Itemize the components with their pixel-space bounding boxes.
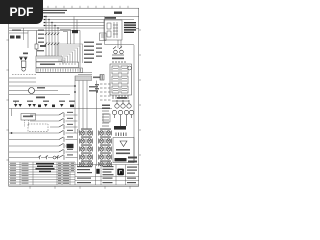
connector CN3 strip <box>36 68 83 73</box>
pin row 1111 <box>116 133 126 137</box>
pump label <box>36 97 45 99</box>
ticks right <box>139 30 141 155</box>
wire row 121 <box>30 120 78 122</box>
wire row 157.5 <box>9 157 78 159</box>
note text block dark <box>124 22 136 33</box>
sheet title note text <box>42 10 67 14</box>
fuse F1 body <box>35 31 38 57</box>
relay K1 <box>112 66 119 74</box>
wire bus L2 <box>44 19 134 21</box>
IC pin ladder upper <box>100 84 111 100</box>
wire run y82 <box>9 81 36 83</box>
solenoid valve row 4 <box>80 155 112 160</box>
frame zone ticks <box>6 6 141 189</box>
ticks left <box>6 40 8 160</box>
CN2 pins <box>60 63 75 65</box>
ladder wire rows <box>9 115 78 158</box>
choke L1 <box>114 22 117 38</box>
solenoid valve row 1 <box>80 131 112 136</box>
wire drop c2 <box>48 20 50 57</box>
bus start terminals <box>44 16 46 26</box>
junction dots column <box>74 85 76 93</box>
heater control box <box>110 64 132 95</box>
relay K6 <box>121 86 128 93</box>
wire row 133 <box>9 132 78 134</box>
relay K2 <box>121 66 128 74</box>
PDF badge <box>0 0 43 24</box>
wire bus stub <box>9 32 28 34</box>
wire drop c4 <box>54 26 56 57</box>
display box <box>113 138 134 163</box>
wire row 146 <box>9 145 66 147</box>
buzzer coil cloud <box>112 100 133 126</box>
lock body <box>19 57 28 71</box>
approval stamp <box>96 169 99 174</box>
dark strip bottom <box>115 158 127 161</box>
thermostat pair 2 <box>28 104 36 107</box>
relay labels column <box>37 30 44 52</box>
sensor IC body <box>103 114 110 122</box>
part table text <box>58 163 74 184</box>
connector CN4 band <box>76 77 90 81</box>
wire bus L1 <box>44 16 139 18</box>
interlock switch pair <box>112 47 124 56</box>
net name text <box>95 84 99 89</box>
wire bus 5 <box>9 27 105 29</box>
wire row 139.5 <box>9 139 78 141</box>
revision table text <box>10 163 29 184</box>
title block left table <box>9 162 75 185</box>
thermostat pair 4 <box>52 104 63 107</box>
tick to border <box>136 28 139 30</box>
capacitor CX2 <box>107 31 111 37</box>
right cell text <box>77 167 137 184</box>
right enclosure line <box>133 45 135 163</box>
wire drop left 1 <box>23 28 25 40</box>
solenoid valve row 2 <box>80 139 112 144</box>
dashed option box <box>28 124 48 132</box>
ticks bottom <box>30 186 130 189</box>
aqua sensor box <box>21 114 36 121</box>
pilot lamp <box>128 66 132 70</box>
net label column <box>84 42 102 64</box>
label PW top right <box>114 12 122 14</box>
power bus wires <box>9 17 139 34</box>
display text <box>116 149 130 154</box>
label power cord <box>12 30 21 32</box>
lock label <box>23 53 28 55</box>
label rows <box>102 105 110 110</box>
capacitor CX1 <box>107 23 111 29</box>
side arrow labels <box>128 157 137 163</box>
capacitor CY1 box <box>100 33 107 41</box>
left long wires <box>9 78 75 86</box>
lock brush symbol <box>20 58 28 61</box>
logo letter <box>119 170 122 173</box>
relay K3 <box>112 76 119 84</box>
company logo <box>117 169 124 176</box>
wire row 127 <box>50 126 78 128</box>
pressure switch bubble <box>53 156 56 159</box>
main PWB connector stack <box>36 56 83 73</box>
wire run y86 <box>9 85 75 87</box>
noise filter label <box>105 17 116 19</box>
junction dot lower left <box>11 132 13 134</box>
feeder bend wires <box>60 30 71 45</box>
junction dots on buses <box>45 16 58 29</box>
connector CN1 <box>36 56 62 62</box>
wire drop left 2 <box>27 31 29 49</box>
buzzer label <box>117 97 127 99</box>
indicator triangle <box>120 141 127 147</box>
heater terminal <box>70 105 74 108</box>
wire drop c3 <box>51 23 53 57</box>
CN3 pins <box>38 69 81 72</box>
wire bus 6 <box>9 30 80 32</box>
thermistor connector <box>100 75 104 81</box>
heater H1 <box>67 144 74 148</box>
thermostat pair 1 <box>14 104 22 107</box>
CN1 pins <box>38 57 60 59</box>
component row labels <box>13 101 75 102</box>
connector CN2 <box>36 62 79 68</box>
ticks top <box>48 6 128 8</box>
wire bus N <box>44 22 105 24</box>
filter output wires <box>118 40 121 48</box>
aqua label <box>23 116 33 118</box>
thermostat pair 3 <box>38 104 47 107</box>
title block right table <box>75 165 139 186</box>
ladder wire tags <box>67 112 73 156</box>
terminal lug A <box>10 36 15 39</box>
wire drop c5 <box>57 28 59 56</box>
valve row labels <box>81 128 111 161</box>
wire run component row <box>9 108 112 110</box>
sheet frame border <box>9 8 139 186</box>
stub wires under row <box>12 101 16 117</box>
bottom inner line <box>9 184 139 186</box>
center relay drops <box>46 17 58 57</box>
company name text <box>77 166 114 175</box>
micom feed wires <box>36 73 92 75</box>
dashed sensor leads <box>25 120 29 127</box>
CN2 label <box>40 64 55 66</box>
left feeder drops <box>24 28 29 48</box>
vertical harness wires <box>75 81 97 167</box>
line strip dark <box>114 126 126 130</box>
relay hatches <box>113 69 127 91</box>
solenoid valve row 3 <box>80 147 112 152</box>
fuse label <box>40 45 46 47</box>
terminal lug B <box>16 36 21 39</box>
dashed enclosure bottom <box>12 74 36 76</box>
ladder contacts <box>38 112 64 159</box>
wire bus 4 <box>44 25 105 27</box>
drawing title text block <box>36 163 55 172</box>
CN4 label <box>93 77 100 79</box>
connector dashes <box>113 61 125 63</box>
relay K5 <box>112 86 119 93</box>
contact ticks on drops <box>45 33 59 45</box>
interlock label <box>112 58 124 60</box>
wire row 115 <box>30 114 78 116</box>
micom text labels <box>89 86 98 92</box>
long vertical feeder x80 <box>79 31 81 73</box>
sensor IC ladder <box>102 111 109 126</box>
pins under box <box>112 95 129 101</box>
wire run y94 <box>9 94 70 96</box>
noise filter NF1 box <box>104 20 122 40</box>
wash motor M1 <box>29 88 35 94</box>
valve rail left <box>77 129 79 166</box>
fuse F2 block <box>72 30 78 33</box>
wire to motor <box>9 90 58 92</box>
junction dot <box>96 91 98 93</box>
feeder to noise filter <box>105 17 135 45</box>
motor label <box>37 87 45 89</box>
wire drops to F2 <box>74 17 77 45</box>
relay K4 <box>121 76 128 84</box>
solenoid valve row 5 <box>80 162 112 166</box>
wire drop c1 <box>45 17 47 57</box>
wire row 152 <box>9 151 78 153</box>
wire run y78 <box>9 77 36 79</box>
wire harness fan <box>55 44 83 64</box>
